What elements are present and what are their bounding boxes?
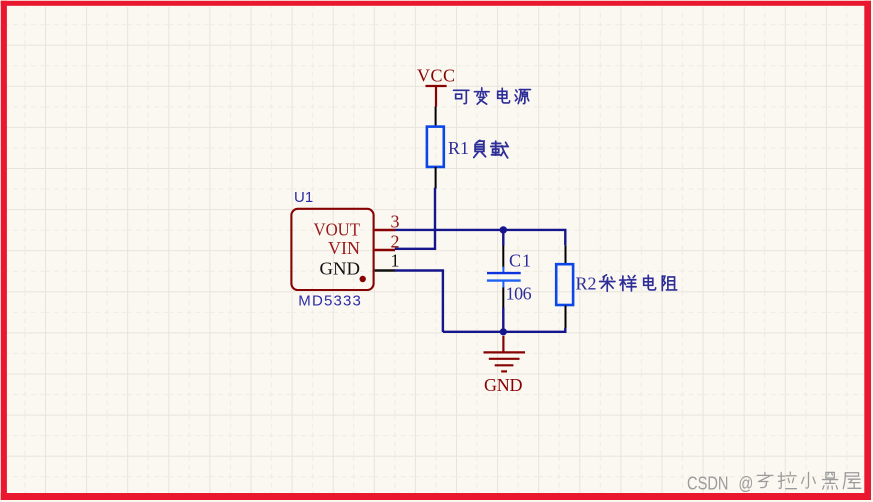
pin 1 stub [375,269,395,271]
wire bottom net [443,328,565,332]
wire VOUT to node A [395,230,565,245]
pin 3 stub [375,229,395,231]
polarity dot [360,276,366,282]
svg-text:R2: R2 [576,274,597,294]
svg-text:GND: GND [320,258,361,278]
wire R1 to VIN node [435,167,437,189]
wire node A to R2 [565,245,567,264]
resistor R2 [556,264,573,305]
svg-text:C1: C1 [509,250,531,270]
svg-text:R1: R1 [448,138,469,158]
svg-text:CSDN: CSDN [687,473,729,493]
wire vertical into VIN [395,188,435,249]
svg-text:1: 1 [391,251,400,271]
ground symbol [484,336,526,372]
wire GND pin to bottom net [395,271,443,333]
svg-text:VIN: VIN [328,238,360,258]
wire VCC to R1 [435,107,437,128]
wire R2 to bottom net [565,306,567,329]
ic U1 box [291,209,373,290]
pin 2 stub [375,249,395,251]
wire C1 to node B [502,288,504,309]
svg-text:U1: U1 [294,189,313,206]
junction node A (top) [500,226,507,233]
capacitor C1 [487,267,521,289]
power symbol VCC [426,86,447,107]
wire node A down to C1 [502,230,504,246]
svg-text:2: 2 [391,232,400,252]
svg-text:VCC: VCC [417,66,455,86]
svg-text:@: @ [738,473,753,493]
junction node B (bottom) [500,328,507,335]
svg-text:GND: GND [484,375,523,395]
label 可变电源 [454,88,531,104]
svg-text:VOUT: VOUT [314,220,361,240]
svg-text:3: 3 [391,212,400,232]
resistor R1 [427,127,444,167]
svg-text:106: 106 [506,283,532,303]
